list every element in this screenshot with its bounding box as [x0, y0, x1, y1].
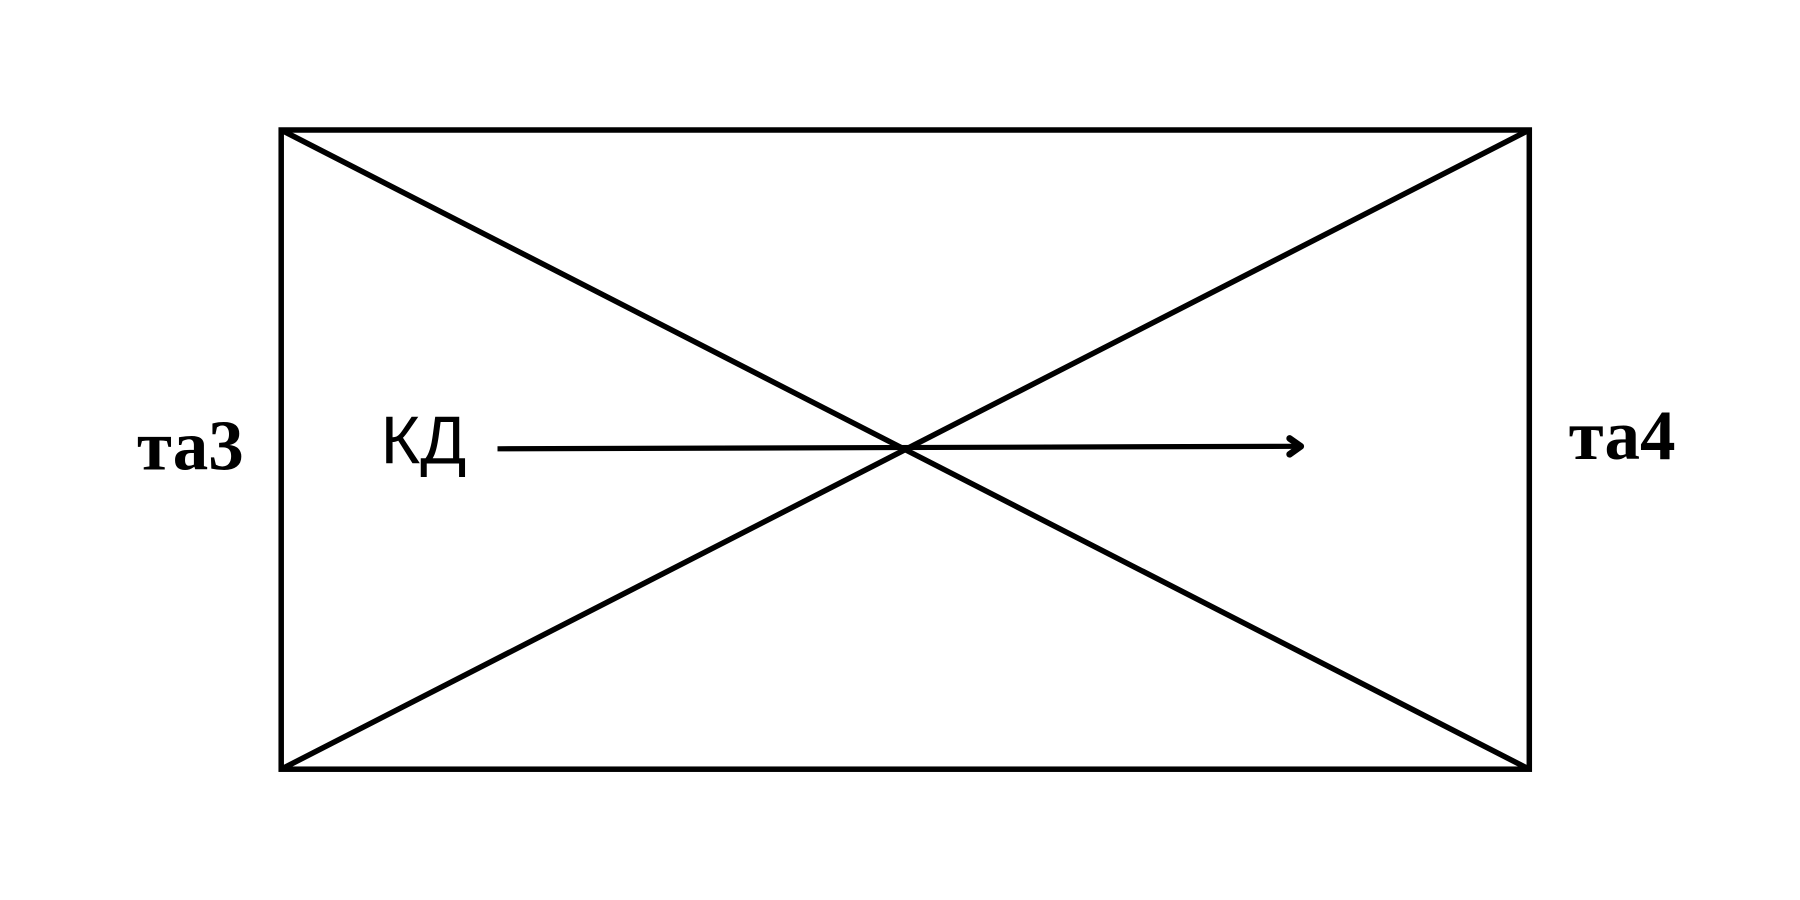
svg-text:та4: та4	[1569, 397, 1676, 475]
svg-text:КД: КД	[381, 403, 467, 479]
svg-text:та3: та3	[137, 408, 244, 486]
